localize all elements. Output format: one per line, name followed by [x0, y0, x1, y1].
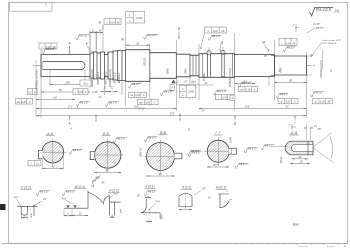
section V-V keyway tab: [174, 153, 182, 159]
svg-text:‖: ‖: [208, 30, 209, 33]
svg-text:272: 272: [169, 112, 175, 116]
svg-text:41: 41: [298, 155, 302, 159]
svg-text:Ra 12: Ra 12: [287, 46, 294, 50]
svg-text:Ø42,5h10: Ø42,5h10: [103, 71, 107, 85]
section D-D body: [285, 141, 313, 155]
svg-text:0,1: 0,1: [36, 163, 40, 166]
svg-text:Ra 1,6: Ra 1,6: [117, 137, 125, 141]
runout box left margin: [16, 99, 33, 105]
svg-text:Ra 1,6: Ra 1,6: [212, 34, 220, 38]
svg-text:‖: ‖: [129, 13, 130, 17]
svg-text:Копировал: Копировал: [298, 246, 309, 248]
svg-text:Вал: Вал: [293, 223, 299, 227]
svg-text:А: А: [67, 42, 71, 46]
svg-text:И (2:1): И (2:1): [109, 189, 119, 193]
svg-text:⋙: ⋙: [240, 89, 244, 92]
svg-text:15°: 15°: [137, 196, 141, 198]
svg-text:А: А: [67, 122, 70, 126]
svg-text:0,03: 0,03: [286, 101, 291, 104]
section A-A keyway notch: [39, 150, 43, 159]
svg-text:Ra 1,6: Ra 1,6: [109, 101, 117, 105]
svg-text:2 фаски: 2 фаски: [312, 26, 324, 30]
registration mark left edge: [0, 204, 6, 210]
title strip ticks: [235, 243, 237, 245]
svg-text:2×45°: 2×45°: [91, 91, 98, 94]
section B-B keyway notch: [90, 152, 94, 160]
datum arrowhead mid: [171, 80, 175, 84]
svg-text:⋙: ⋙: [17, 101, 21, 104]
section A-A roughness: [69, 148, 83, 155]
flag Ra16 mid-bottom: [213, 89, 227, 96]
svg-text:R0,5: R0,5: [14, 197, 19, 199]
svg-text:38,1: 38,1: [83, 83, 88, 86]
perp box mid-bottom: [215, 95, 234, 100]
svg-text:Ra 6,3: Ra 6,3: [239, 162, 247, 166]
svg-text:Ø45: Ø45: [161, 214, 164, 220]
svg-text:10N9: 10N9: [230, 136, 233, 142]
svg-text:0,05: 0,05: [222, 97, 227, 100]
svg-text:Ø80: Ø80: [184, 68, 188, 75]
svg-text:0,16: 0,16: [110, 21, 115, 24]
svg-text:12°: 12°: [98, 96, 102, 99]
dim 218 right: [199, 108, 307, 110]
svg-text:Е (2:1): Е (2:1): [21, 186, 31, 190]
svg-text:Ra 6,3: Ra 6,3: [148, 136, 156, 140]
svg-text:Б-Б: Б-Б: [103, 132, 110, 136]
boxes mid2: [138, 99, 159, 104]
svg-text:Ø90-0,1: Ø90-0,1: [140, 147, 143, 158]
general roughness note: [310, 7, 334, 15]
svg-text:15°: 15°: [264, 55, 268, 58]
svg-text:Л (2:1): Л (2:1): [181, 186, 192, 190]
svg-text:ГОСТ 14034-74: ГОСТ 14034-74: [322, 42, 337, 45]
svg-text:Ra 6,3: Ra 6,3: [191, 149, 199, 153]
svg-text:0,16: 0,16: [213, 30, 218, 33]
svg-text:В: В: [188, 128, 190, 132]
svg-text:70: 70: [58, 88, 62, 92]
extension lines below shaft: [40, 77, 42, 119]
section B-B roughness: [113, 137, 127, 144]
svg-text:Ra 1,6: Ra 1,6: [46, 47, 54, 51]
title block strip: [2, 242, 348, 244]
datum box A-B left: [39, 43, 57, 49]
svg-text:40: 40: [53, 96, 57, 100]
section D-D left flag: [261, 144, 275, 151]
dim 40 row: [35, 60, 37, 117]
revision table: [10, 2, 53, 11]
svg-text:Ra 1,25: Ra 1,25: [147, 33, 157, 37]
svg-text:А: А: [293, 101, 296, 104]
section G-G dim: [207, 166, 229, 168]
svg-text:⋙: ⋙: [130, 94, 134, 97]
svg-text:Ø48k6(+0,02): Ø48k6(+0,02): [108, 69, 112, 88]
svg-text:Ra 1,6: Ra 1,6: [79, 34, 87, 38]
svg-text:АБ: АБ: [116, 21, 121, 24]
svg-text:Ra 16: Ra 16: [280, 92, 287, 96]
svg-text:172: 172: [68, 105, 73, 109]
dim 70 row: [41, 91, 90, 93]
svg-text:С: С: [154, 101, 156, 104]
svg-text:0,006: 0,006: [188, 91, 195, 94]
svg-text:М (2:1): М (2:1): [216, 186, 226, 190]
dim 24 above big cylinder: [126, 44, 150, 46]
svg-text:218: 218: [244, 105, 250, 109]
chamfer note 2x45 left: [80, 80, 91, 86]
parallel box right: [205, 27, 227, 33]
roughness flag mid: [144, 33, 159, 40]
svg-text:Ra 12,5: Ra 12,5: [316, 7, 332, 12]
svg-text:Ra 1,6: Ra 1,6: [40, 190, 48, 194]
svg-text:Ra 1,1: Ra 1,1: [265, 144, 273, 148]
keyway slot on left journal: [43, 62, 86, 70]
section A-A datum box: [28, 161, 41, 166]
svg-text:42: 42: [51, 165, 55, 169]
overall dim row: [36, 115, 307, 117]
svg-text:Δ: Δ: [329, 69, 332, 73]
extension lines above shaft: [40, 49, 42, 55]
section D-D dims below: [292, 158, 309, 160]
detail Zh drawing: [64, 191, 103, 209]
shaft outline: [41, 50, 307, 82]
svg-text:R15: R15: [62, 199, 67, 201]
section G-G keyway tab: [229, 148, 237, 154]
svg-text:В-В: В-В: [160, 131, 167, 135]
svg-text:Ø90: Ø90: [166, 68, 170, 75]
svg-text:Ra 1,6: Ra 1,6: [217, 89, 226, 93]
svg-text:(√): (√): [335, 8, 341, 13]
svg-text:Ж (2:1): Ж (2:1): [74, 185, 86, 189]
svg-text:Δ: Δ: [277, 69, 280, 73]
svg-text:А: А: [69, 127, 72, 131]
right roughness flags: [238, 81, 252, 88]
svg-text:0,1: 0,1: [28, 91, 32, 94]
tiny box left of mid: [170, 84, 174, 90]
chamfer diagonal right journal: [269, 55, 275, 57]
section B-B: [95, 142, 121, 168]
position boxes mid below: [129, 92, 147, 97]
dim 95 right end: [275, 82, 307, 84]
dim 50 right: [235, 83, 256, 85]
svg-text:96: 96: [105, 169, 109, 173]
svg-text:АБ: АБ: [291, 42, 296, 45]
svg-text:0,05: 0,05: [145, 101, 150, 104]
svg-text:Ø48,5-0,1: Ø48,5-0,1: [96, 71, 100, 85]
svg-text:Ra 6,3: Ra 6,3: [73, 148, 81, 152]
section V-V roughness flags: [144, 136, 158, 143]
svg-text:Формат: Формат: [327, 245, 335, 248]
svg-text:А: А: [33, 91, 36, 94]
svg-text:Ra 1,6: Ra 1,6: [132, 82, 140, 86]
shaft step lines: [89, 53, 91, 78]
svg-text:М: М: [262, 41, 265, 45]
svg-text:А: А: [142, 94, 145, 97]
svg-text:0,05: 0,05: [22, 101, 27, 104]
svg-text:3 отв. центр. Н7ГП: 3 отв. центр. Н7ГП: [322, 40, 341, 42]
svg-text:Ø120: Ø120: [143, 58, 147, 67]
svg-text:30°: 30°: [202, 188, 206, 191]
svg-text:Ø40: Ø40: [120, 208, 123, 214]
svg-text:0,04: 0,04: [286, 42, 291, 45]
detail K drawing: [141, 199, 160, 219]
svg-text:М: М: [232, 98, 234, 100]
parallelism box mid: [126, 12, 145, 23]
section A-A: [42, 141, 64, 163]
svg-text:Ø58h12: Ø58h12: [117, 72, 121, 84]
svg-text:0,16: 0,16: [246, 89, 251, 92]
svg-text:А: А: [84, 91, 87, 94]
svg-text:Ra 1,6: Ra 1,6: [314, 91, 322, 95]
svg-text:‖: ‖: [182, 88, 183, 91]
detail I drawing: [104, 196, 121, 216]
svg-text:⋙: ⋙: [139, 101, 143, 104]
svg-text:95: 95: [289, 79, 293, 83]
svg-text:0,006: 0,006: [136, 17, 143, 20]
svg-text:50h12: 50h12: [281, 156, 283, 163]
svg-text:24: 24: [135, 41, 139, 45]
radial hole D-D: [207, 51, 211, 55]
perpendicular box far right: [279, 39, 297, 46]
svg-text:Ra 6,3: Ra 6,3: [248, 147, 256, 151]
svg-text:0,04: 0,04: [135, 94, 140, 97]
shaft centre line: [33, 65, 316, 67]
svg-text:Ra 1,6: Ra 1,6: [242, 81, 250, 85]
svg-text:А: А: [28, 101, 31, 104]
svg-text:15°: 15°: [43, 198, 47, 201]
svg-text:АБ: АБ: [220, 30, 225, 33]
svg-text:Ø45k6(+0,018): Ø45k6(+0,018): [228, 68, 232, 88]
dim 150 left keyway: [50, 84, 85, 86]
svg-text:Ø35k6(+0,01): Ø35k6(+0,01): [319, 60, 323, 78]
detail E drawing: [17, 206, 37, 216]
section V-V: [147, 143, 175, 171]
detail L drawing: [179, 194, 192, 207]
detail M drawing: [218, 194, 229, 208]
svg-text:АБ: АБ: [326, 101, 331, 104]
section G-G: [207, 140, 229, 162]
svg-text:А-А: А-А: [46, 132, 54, 136]
svg-text:0,03: 0,03: [320, 101, 325, 104]
svg-text:15°: 15°: [208, 198, 212, 200]
svg-text:Л: Л: [170, 88, 173, 90]
svg-text:В: В: [179, 118, 181, 122]
section D-D angle fan: [313, 133, 334, 163]
svg-text:80,5: 80,5: [191, 82, 196, 84]
roughness flag left-top: [76, 34, 90, 41]
svg-text:150: 150: [65, 81, 70, 85]
small dims above rings: [90, 32, 97, 34]
svg-text:18: 18: [299, 159, 303, 163]
groove inner lines: [192, 55, 194, 76]
roughness flags below left: [76, 101, 90, 108]
section G-G roughness flags: [244, 147, 258, 154]
svg-text:Ra 12: Ra 12: [148, 190, 155, 194]
svg-text:45°: 45°: [318, 127, 322, 131]
svg-text:Д-Д: Д-Д: [290, 131, 298, 135]
svg-text:Ø48k6(+0,018): Ø48k6(+0,018): [35, 70, 39, 90]
svg-text:0,05: 0,05: [78, 91, 83, 94]
section D-D top dim: [306, 124, 308, 140]
dim 172 long: [36, 108, 176, 110]
svg-text:Ra 1,6: Ra 1,6: [80, 101, 88, 105]
svg-text:14°: 14°: [201, 110, 205, 113]
parallel 2row box mid-bottom: [179, 85, 196, 97]
svg-text:К (2:1): К (2:1): [145, 185, 154, 189]
tolerance box below left: [73, 89, 88, 95]
section V-V dim: [147, 175, 175, 177]
svg-text:47,5: 47,5: [213, 163, 219, 167]
svg-text:45°: 45°: [101, 182, 105, 185]
runout box far left: [28, 89, 38, 95]
svg-text:Ø38: Ø38: [31, 213, 33, 219]
svg-text:98: 98: [158, 172, 162, 176]
keyway pocket hatched: [221, 50, 225, 54]
section B-B dim: [95, 172, 122, 174]
svg-text:30°±1°: 30°±1°: [138, 108, 145, 111]
svg-text:Г: Г: [294, 122, 296, 126]
section A-A dim: [43, 168, 64, 170]
svg-text:А: А: [253, 89, 256, 92]
svg-text:Ra 6,3: Ra 6,3: [66, 190, 74, 194]
